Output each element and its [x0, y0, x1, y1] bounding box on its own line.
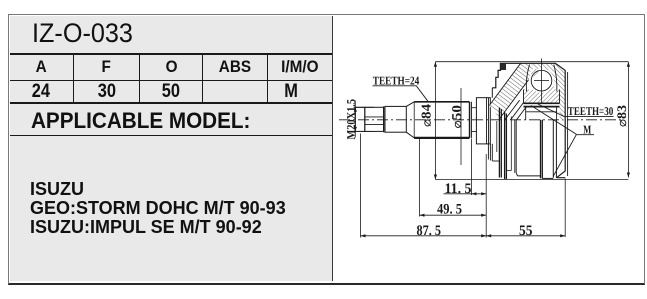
extension line 49.5 left: [419, 139, 421, 217]
lower exterior: step below flange: [492, 160, 499, 162]
svg-text:TEETH=30: TEETH=30: [568, 104, 614, 118]
spline section TEETH=24: [414, 102, 469, 138]
dimension 49.5: [420, 214, 487, 217]
svg-text:55: 55: [519, 223, 533, 239]
cage wedge SE: [547, 85, 557, 95]
svg-text:11. 5: 11. 5: [445, 181, 472, 197]
title IZ-O-033: [32, 20, 133, 46]
ball centerlines: [541, 59, 543, 103]
boot seat edge: [496, 121, 498, 152]
cage wedge NW: [530, 68, 540, 78]
svg-text:87. 5: 87. 5: [417, 223, 442, 239]
bell outer profile: [492, 63, 565, 177]
dia 84 dimension line: [434, 62, 436, 180]
ball pocket white: [529, 68, 554, 93]
left gray panel: [10, 16, 333, 282]
panel divider: [332, 16, 334, 282]
flange grooves: [487, 98, 489, 144]
extension line 55 right: [564, 179, 566, 238]
bell wall right hatch: [531, 63, 565, 120]
bell left face: [491, 88, 493, 98]
groove band 1: [499, 108, 501, 178]
wall band boundary lines: [489, 63, 520, 105]
value row: [10, 81, 74, 102]
centerline: [339, 119, 624, 121]
M20X1.5 dimension: [354, 101, 375, 138]
svg-text:∅50: ∅50: [449, 105, 464, 129]
groove band 4: [541, 120, 543, 179]
ball track arcs in opening: [505, 100, 520, 120]
spline end double line: [469, 102, 471, 138]
thread/shaft divider: [384, 106, 385, 132]
model list: [30, 180, 286, 238]
extension line 11.5 left: [470, 139, 472, 196]
extension line 87.5 left: [360, 134, 362, 238]
dimension 11.5: [444, 192, 487, 195]
thread minor diameter lines: [365, 117, 384, 125]
table grid lines: [10, 53, 333, 55]
bell wall diagonal band hatch: [489, 63, 541, 118]
thread section: [365, 107, 384, 131]
bottom extent extension line: [435, 179, 628, 181]
plain shaft: [385, 106, 406, 132]
boot flange: [476, 98, 490, 144]
groove band 2: [505, 112, 507, 179]
bell inner face ring: [567, 72, 569, 176]
extension line common 486: [485, 154, 487, 238]
thread tip cap: [355, 107, 365, 131]
svg-text:49. 5: 49. 5: [437, 202, 462, 218]
cage arcs: [526, 65, 529, 92]
dia 83 dimension line: [627, 62, 629, 178]
inner race hatch: [524, 90, 560, 104]
groove band 5: [553, 120, 556, 178]
neck: [471, 108, 476, 132]
applicable model row: [31, 108, 250, 134]
lip snap ring notch: [501, 63, 506, 70]
race body below bore: [526, 107, 557, 120]
M leader to spline bore: [531, 106, 576, 135]
inner race spline bore TEETH=30: [524, 102, 560, 104]
header row: [10, 55, 74, 80]
groove band 3: [515, 120, 516, 173]
ball: [531, 70, 552, 91]
top extent extension line: [435, 61, 628, 63]
svg-text:∅84: ∅84: [419, 104, 434, 127]
race side edges: [524, 90, 560, 104]
dimension 87.5 and 55: [361, 234, 566, 237]
cone to spline: [406, 102, 414, 138]
dia 50 dimension line: [460, 88, 462, 165]
svg-text:∅83: ∅83: [614, 104, 629, 127]
